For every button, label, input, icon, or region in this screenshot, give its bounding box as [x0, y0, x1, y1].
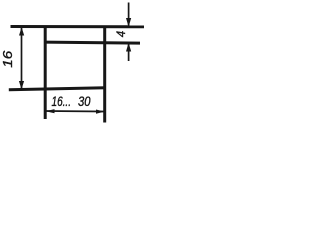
part outline: right edge with bottom extension [103, 26, 106, 123]
dimension line 16 (vertical, left) [21, 28, 23, 89]
dimension 4: lower leader line [128, 44, 130, 62]
part outline: top edge with extension lines [11, 25, 145, 28]
arrowhead: dim 4 upper (pointing down) [126, 18, 131, 27]
arrowhead: dim 16 bottom (pointing down) [19, 81, 24, 89]
arrowhead: dim 16...30 right (pointing right) [96, 110, 105, 114]
svg-text:16: 16 [0, 50, 15, 68]
svg-text:16...: 16... [52, 94, 72, 109]
inner line at 4 units below top, with right extension [44, 42, 140, 43]
arrowhead: dim 16 top (pointing up) [19, 27, 24, 35]
part outline: left edge with bottom extension [44, 26, 47, 120]
svg-text:4: 4 [116, 31, 128, 37]
dimension 4: upper leader line [128, 3, 130, 27]
svg-text:30: 30 [78, 94, 91, 109]
arrowhead: dim 4 lower (pointing up) [126, 43, 131, 52]
dimension line 16...30 (horizontal, bottom) [46, 110, 104, 113]
part outline: bottom edge with left extension [9, 88, 106, 90]
arrowhead: dim 16...30 left (pointing left) [46, 109, 55, 113]
